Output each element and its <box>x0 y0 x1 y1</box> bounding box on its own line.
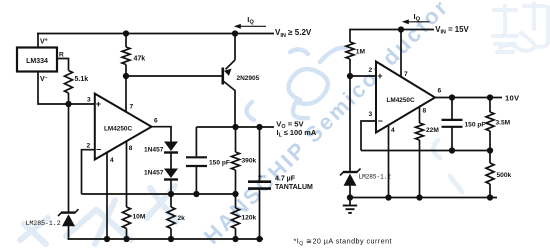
wire: pin 3 feedback bend <box>361 121 376 151</box>
svg-text:4.7 µF: 4.7 µF <box>275 175 296 182</box>
wire: pin 6 output stub <box>152 127 171 142</box>
resistor 120k <box>235 194 237 208</box>
wire: LM334 V+ riser <box>37 33 39 48</box>
wire: left top rail <box>37 33 274 35</box>
svg-text:8: 8 <box>423 108 427 115</box>
wire: LM334 V- to op-amp + input <box>38 72 95 105</box>
node: ground junction <box>347 194 353 200</box>
wire: pin 7 riser <box>125 76 127 113</box>
pin 7 wire + label <box>400 30 402 78</box>
resistor 5.1k <box>65 71 73 94</box>
node: 47k bottom / base / pin7 <box>123 73 129 79</box>
wire: LM334 R terminal <box>57 59 69 71</box>
wire: + input row <box>350 75 376 77</box>
svg-text:VIN = 15V: VIN = 15V <box>435 25 469 36</box>
wire: zener branch <box>349 76 351 171</box>
transistor Q1 2N2905 <box>223 34 235 128</box>
svg-text:10M: 10M <box>133 214 146 221</box>
wire: VO row <box>196 126 274 128</box>
svg-text:22M: 22M <box>426 127 439 134</box>
node: collector/390k <box>232 124 238 130</box>
svg-text:7: 7 <box>404 71 408 78</box>
capacitor 150 pF left <box>195 127 197 156</box>
svg-text:3: 3 <box>87 97 91 104</box>
svg-text:10V: 10V <box>505 94 520 103</box>
svg-text:4: 4 <box>391 127 395 134</box>
wire: feedback row <box>82 193 236 195</box>
node: 4.7uF top <box>256 124 262 130</box>
ground symbol <box>343 198 357 213</box>
wire: pin 8 down <box>419 107 421 124</box>
svg-text:3.5M: 3.5M <box>496 119 511 126</box>
node: 390k/120k junction <box>232 191 238 197</box>
svg-text:LM285-1.2: LM285-1.2 <box>26 220 61 227</box>
svg-text:IQ: IQ <box>247 15 254 26</box>
resistor 47k <box>125 34 127 48</box>
svg-text:47k: 47k <box>134 56 146 63</box>
resistor 3.5M <box>489 98 491 113</box>
svg-text:150 pF: 150 pF <box>209 159 230 166</box>
node: diode/2k junction <box>168 191 174 197</box>
svg-text:+: + <box>377 71 382 81</box>
svg-text:V–: V– <box>40 75 48 83</box>
resistor 390k <box>235 127 237 152</box>
op-amp U2 LM4250C triangle <box>376 62 435 133</box>
LM334 regulator box <box>17 48 57 72</box>
svg-text:390k: 390k <box>242 158 257 165</box>
resistor 1M <box>349 29 351 42</box>
svg-text:500k: 500k <box>497 172 512 179</box>
node: 150pF bottom <box>449 147 455 153</box>
svg-text:1N457: 1N457 <box>144 170 164 177</box>
zener diode LM285-1.2 <box>58 209 79 226</box>
zener diode LM285-1.2 right <box>340 169 361 186</box>
wire: base row to 2N2905 <box>126 75 222 77</box>
resistor 2k <box>170 194 172 207</box>
capacitor 150 pF right <box>451 98 453 120</box>
watermark faint strokes <box>20 186 176 244</box>
watermark corner glyphs (very light) <box>493 3 548 52</box>
node: divider tap <box>487 147 493 153</box>
node: 3.5M top <box>487 94 493 100</box>
wire: zener branch down <box>68 104 70 212</box>
svg-text:LM4250C: LM4250C <box>387 97 415 104</box>
pin 6 output row <box>435 97 502 99</box>
svg-text:+: + <box>96 99 101 109</box>
svg-text:*IQ ≅20 µA standby current: *IQ ≅20 µA standby current <box>294 236 392 247</box>
svg-text:+: + <box>258 172 263 181</box>
node: pin 7 on rail <box>398 26 404 32</box>
svg-text:R: R <box>59 52 64 59</box>
svg-text:5.1k: 5.1k <box>75 76 89 83</box>
svg-text:2: 2 <box>369 67 373 74</box>
svg-text:3: 3 <box>369 111 373 118</box>
svg-text:2k: 2k <box>178 215 186 222</box>
diode D1 1N457 <box>164 142 178 153</box>
wire: right feedback row <box>361 150 490 152</box>
svg-text:7: 7 <box>130 104 134 111</box>
svg-text:6: 6 <box>438 88 442 95</box>
node: emitter on rail <box>232 30 238 36</box>
wire between diodes <box>170 153 172 169</box>
resistor 22M <box>416 123 424 140</box>
wire: pin 8 down <box>126 142 128 208</box>
watermark swirl glyphs <box>246 48 346 120</box>
svg-text:150 pF: 150 pF <box>465 121 486 128</box>
svg-text:−: − <box>378 116 383 126</box>
wire: left bottom rail <box>68 238 263 240</box>
svg-text:LM285-1.2: LM285-1.2 <box>359 173 392 180</box>
wire: pin 4 to rail <box>388 126 390 198</box>
svg-text:VIN ≥ 5.2V: VIN ≥ 5.2V <box>275 28 312 39</box>
diode D2 1N457 <box>164 169 178 180</box>
node: 150pF top <box>449 94 455 100</box>
svg-text:1M: 1M <box>356 49 366 56</box>
svg-text:120k: 120k <box>242 215 257 222</box>
svg-text:2: 2 <box>87 143 91 150</box>
op-amp U1 LM4250C triangle <box>95 94 152 160</box>
svg-text:−: − <box>96 145 101 155</box>
svg-text:8: 8 <box>129 145 133 152</box>
current arrow IQ left <box>234 24 266 29</box>
node: cap bottom <box>193 191 199 197</box>
svg-text:2N2905: 2N2905 <box>237 75 260 82</box>
svg-text:LM334: LM334 <box>26 58 48 65</box>
resistor 500k <box>489 151 491 164</box>
svg-text:4: 4 <box>110 157 114 164</box>
svg-text:6: 6 <box>154 118 158 125</box>
wire: pin 4 to bottom rail <box>106 153 108 240</box>
wire: right top rail <box>350 29 434 31</box>
svg-text:1N457: 1N457 <box>144 147 164 154</box>
svg-text:V+: V+ <box>40 37 48 45</box>
capacitor 4.7uF tantalum <box>259 127 261 181</box>
current arrow IQ right <box>402 19 430 24</box>
svg-text:TANTALUM: TANTALUM <box>275 184 313 191</box>
junction node (5.1k / +input) <box>65 101 71 107</box>
wire: right bottom rail <box>350 197 497 199</box>
svg-text:LM4250C: LM4250C <box>104 125 132 132</box>
node: 1M bottom / +input <box>347 73 353 79</box>
wire: pin 2 feedback <box>82 150 95 194</box>
node: 47k top on rail <box>123 30 129 36</box>
resistor 10M <box>123 207 131 229</box>
